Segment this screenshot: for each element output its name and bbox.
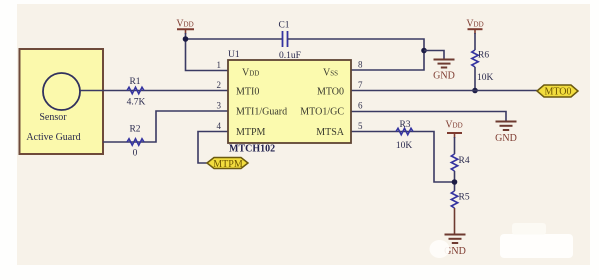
svg-text:10K: 10K <box>477 73 494 83</box>
svg-text:U1: U1 <box>228 50 240 60</box>
svg-text:MTPM: MTPM <box>236 127 266 138</box>
watermark smudge near bottom ground <box>430 240 450 258</box>
svg-text:VDD: VDD <box>445 120 462 131</box>
svg-text:VDD: VDD <box>242 68 259 79</box>
svg-text:MTCH102: MTCH102 <box>229 144 275 155</box>
power VDD (above R4) <box>445 120 462 139</box>
wire R2 row from sensor box <box>103 111 228 142</box>
wire VDD to R6 <box>474 33 476 50</box>
op IC U1 MTCH102 body <box>228 60 351 143</box>
svg-text:MTSA: MTSA <box>316 127 345 138</box>
sensor circle <box>43 73 80 110</box>
svg-text:4.7K: 4.7K <box>127 98 146 108</box>
svg-text:VDD: VDD <box>466 19 483 30</box>
junction dot on pin8 drop <box>421 48 427 54</box>
svg-text:GND: GND <box>433 71 455 82</box>
junction dot on MTO0 line <box>472 88 478 94</box>
wire pin6 to GND <box>351 112 506 122</box>
svg-text:GND: GND <box>495 133 517 144</box>
svg-text:4: 4 <box>217 121 222 131</box>
svg-text:R6: R6 <box>478 51 489 61</box>
svg-text:3: 3 <box>217 101 222 111</box>
wire C1 right to pin8 drop <box>288 39 425 70</box>
svg-text:MTI1/Guard: MTI1/Guard <box>236 107 287 118</box>
svg-text:2: 2 <box>217 80 222 90</box>
svg-text:Sensor: Sensor <box>39 112 67 123</box>
svg-text:MTO0: MTO0 <box>317 87 344 98</box>
svg-text:VSS: VSS <box>323 68 338 79</box>
svg-text:1: 1 <box>217 60 222 70</box>
resistor R6 <box>472 50 494 83</box>
wire top rail to C1 left <box>186 38 283 40</box>
wire pin4 to MTPM tag <box>198 132 228 164</box>
wire junction to GND <box>424 51 444 60</box>
svg-text:10K: 10K <box>396 141 413 151</box>
resistor R4 <box>451 154 470 171</box>
svg-text:R3: R3 <box>399 120 410 130</box>
watermark smudge bottom right band <box>500 234 573 258</box>
svg-text:7: 7 <box>358 80 363 90</box>
svg-text:0: 0 <box>133 149 138 159</box>
ground GND (bottom) <box>444 235 466 258</box>
svg-text:8: 8 <box>358 60 363 70</box>
resistor R1 <box>127 77 146 108</box>
svg-text:MTO0: MTO0 <box>544 87 571 98</box>
wire sensor to pin2 <box>80 90 228 92</box>
power VDD (above R6) <box>466 19 483 35</box>
svg-text:R5: R5 <box>459 193 470 203</box>
wire pin5 through R3 down to R4/R5 node <box>351 132 455 183</box>
svg-text:Active Guard: Active Guard <box>26 132 80 143</box>
svg-text:R1: R1 <box>129 77 140 87</box>
junction dot R4/R5 node <box>452 179 458 185</box>
capacitor C1 <box>278 21 301 62</box>
wire VDD to R4 <box>454 137 456 154</box>
power VDD (top left) <box>176 19 194 35</box>
svg-text:MTI0: MTI0 <box>236 87 259 98</box>
wire R4 to node <box>454 171 456 191</box>
ground GND (top) <box>433 60 455 82</box>
sensor block (Active Guard) <box>20 49 104 154</box>
ground GND (pin6) <box>495 122 517 145</box>
svg-text:5: 5 <box>358 121 363 131</box>
watermark faint patch above band <box>512 223 546 235</box>
wire R5 to GND <box>454 208 456 234</box>
resistor R3 <box>396 120 413 151</box>
resistor R5 <box>451 191 470 208</box>
svg-text:R2: R2 <box>129 125 140 135</box>
wire pin7 to MTO0 tag <box>351 90 537 92</box>
wire R6 to MTO0 line <box>474 67 476 91</box>
svg-text:VDD: VDD <box>176 19 193 30</box>
svg-text:C1: C1 <box>278 21 289 31</box>
svg-text:R4: R4 <box>459 156 470 166</box>
junction dot at VDD rail <box>183 36 189 42</box>
svg-text:MTPM: MTPM <box>213 159 243 170</box>
net label MTPM <box>207 158 248 171</box>
svg-text:6: 6 <box>358 101 363 111</box>
svg-text:MTO1/GC: MTO1/GC <box>300 107 344 118</box>
net label MTO0 <box>537 85 578 98</box>
wire VDD stem to pin1 <box>186 33 229 71</box>
resistor R2 <box>127 125 144 159</box>
